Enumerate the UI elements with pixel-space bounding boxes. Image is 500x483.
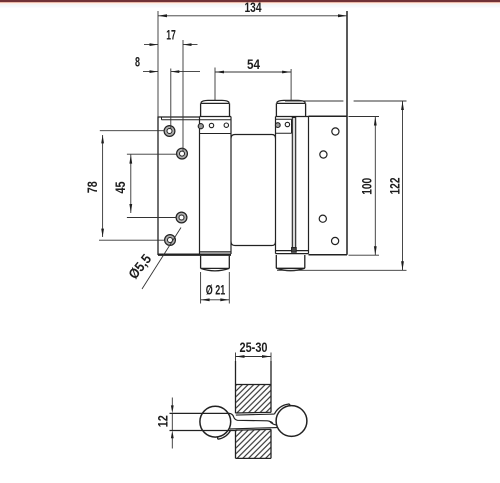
leaf hook blob xyxy=(269,421,273,424)
svg-text:54: 54 xyxy=(247,56,260,72)
svg-text:45: 45 xyxy=(112,181,128,193)
holes right plate xyxy=(319,128,339,245)
left plate bottom edge xyxy=(158,254,231,256)
leader O5,5 xyxy=(142,228,181,290)
upper leaf top edge xyxy=(236,414,275,415)
dimension 17 xyxy=(144,40,198,151)
lower leaf bottom edge xyxy=(230,428,277,429)
screws right strip xyxy=(275,122,289,127)
left leaf fold line xyxy=(162,117,232,120)
left barrel body xyxy=(200,117,232,255)
right barrel bottom cap xyxy=(276,255,305,271)
svg-text:100: 100 xyxy=(358,178,374,195)
hole H2 xyxy=(177,148,188,159)
left barrel bottom cap xyxy=(201,256,230,271)
right leaf plate xyxy=(309,11,348,255)
right wrap arc xyxy=(274,404,290,414)
svg-text:17: 17 xyxy=(166,27,176,43)
left wrap arc xyxy=(218,430,231,439)
hole H3 xyxy=(176,212,187,223)
dimension 8 xyxy=(143,69,200,130)
svg-text:78: 78 xyxy=(84,181,100,193)
svg-text:122: 122 xyxy=(387,177,403,194)
middle connecting plate xyxy=(231,135,276,246)
left barrel circle xyxy=(200,406,231,437)
svg-text:Ø 21: Ø 21 xyxy=(206,282,226,298)
dimension 25-30 xyxy=(236,353,272,362)
dimension 134 xyxy=(158,11,347,117)
right barrel body xyxy=(276,117,309,254)
left barrel top cap xyxy=(201,100,230,116)
svg-text:12: 12 xyxy=(154,415,170,427)
dimension 78 xyxy=(99,131,165,241)
right barrel top cap xyxy=(276,100,305,116)
hole H1 xyxy=(164,126,175,137)
upper leaf line xyxy=(170,413,277,425)
svg-text:8: 8 xyxy=(135,54,140,70)
right barrel circle xyxy=(276,406,307,437)
left leaf plate xyxy=(158,117,200,254)
door section xyxy=(236,361,272,458)
hole H4 xyxy=(165,235,176,246)
right knuckle strip xyxy=(276,119,292,133)
svg-text:134: 134 xyxy=(245,0,262,15)
left knuckle strip xyxy=(200,133,232,135)
dimension 54 xyxy=(215,68,291,101)
svg-text:25-30: 25-30 xyxy=(240,339,268,355)
dimension 122 xyxy=(277,101,407,270)
dimension 100 xyxy=(349,117,380,256)
lower long line xyxy=(170,430,236,432)
dimension 45 xyxy=(127,154,177,217)
dimension 12 xyxy=(171,398,173,449)
header bar xyxy=(0,0,500,2)
right leaf edge xyxy=(292,118,297,253)
dimension O21 xyxy=(201,272,230,304)
screws left strip xyxy=(198,123,228,129)
